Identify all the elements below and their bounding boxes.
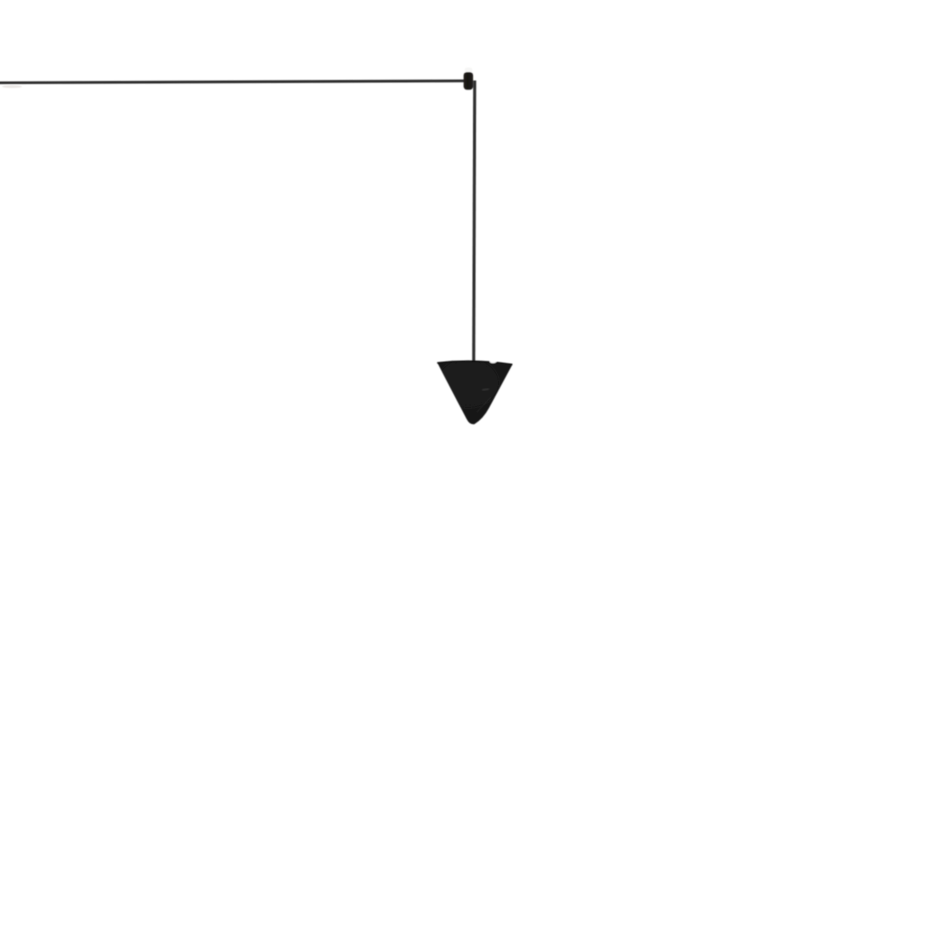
horizontal ceiling cable xyxy=(0,81,464,83)
faint scratch highlight xyxy=(481,388,489,391)
rim highlight notch right xyxy=(490,360,497,363)
canopy cylinder connector xyxy=(464,72,474,90)
rim top dark edge xyxy=(437,361,512,364)
faint extension above canopy xyxy=(465,68,472,74)
vertical drop wire xyxy=(474,81,475,364)
faint diagonal streak xyxy=(477,397,491,412)
cone inner sheen xyxy=(438,359,498,407)
cone shade xyxy=(437,361,512,424)
faint smudge below cable at left edge xyxy=(2,85,22,88)
